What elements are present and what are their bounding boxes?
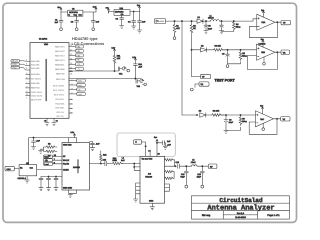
oscillator ground stub — [26, 176, 28, 180]
net label PGC — [11, 66, 20, 69]
wire clk input to oscillator — [14, 168, 19, 170]
ground under C9 — [224, 130, 228, 133]
ground IC4 left bus — [134, 196, 138, 202]
net label CLK dds — [44, 159, 53, 162]
svg-text:Vin Gnd Vdd: Vin Gnd Vdd — [142, 158, 153, 161]
svg-text:MCLR-VPP: MCLR-VPP — [31, 98, 42, 101]
net label VZ — [281, 117, 290, 121]
transistor Q1 — [118, 67, 126, 71]
resistor R11 — [113, 55, 116, 64]
diode D3 — [200, 113, 212, 117]
wire U2B output — [275, 51, 281, 53]
svg-text:Out: Out — [30, 166, 34, 169]
svg-text:RA5-AN5: RA5-AN5 — [31, 82, 40, 85]
power stub 5v+ U2C — [261, 107, 263, 114]
net label DB7 — [75, 58, 83, 61]
U1 bottom pin Vss — [46, 118, 48, 123]
svg-text:GND: GND — [149, 200, 154, 203]
svg-text:R6 10K: R6 10K — [213, 109, 220, 112]
terminal circle under C20 — [201, 185, 204, 188]
wire U9 output to 3.3v — [83, 11, 96, 13]
svg-text:RB6-PGC: RB6-PGC — [56, 72, 65, 75]
svg-text:RC2-SSP1: RC2-SSP1 — [54, 93, 65, 96]
rail down to oscillator — [28, 138, 30, 165]
svg-text:FQ-UD: FQ-UD — [63, 162, 70, 165]
svg-text:RB1-SVTC: RB1-SVTC — [55, 50, 65, 53]
svg-text:RC7-T5: RC7-T5 — [57, 115, 65, 118]
wire oscillator out to U4 — [37, 168, 62, 170]
resistor R5 1Meg — [239, 50, 242, 61]
svg-text:Cin: Cin — [121, 13, 124, 16]
U1 bottom pin AVss — [53, 118, 55, 123]
wire row2 to op-amp — [222, 49, 256, 51]
resistor R6 — [212, 114, 224, 117]
resistor R7 — [239, 115, 242, 125]
ground under Vss — [45, 123, 49, 126]
power arrow 9v at U10 input — [107, 8, 109, 13]
long wire U1 pin28 to Q1 — [69, 70, 118, 72]
terminal circle under U2C — [262, 123, 264, 127]
svg-text:+5: +5 — [56, 119, 58, 122]
ground at R8 R9 — [39, 149, 43, 153]
svg-text:3.3v: 3.3v — [112, 46, 116, 49]
IC4 pin stub crystal in — [149, 152, 151, 156]
svg-text:MCP1700: MCP1700 — [69, 11, 77, 14]
svg-text:U1 dsPIC: U1 dsPIC — [39, 37, 48, 40]
wire to op-amp U2A input — [222, 19, 257, 21]
svg-text:VDD VDD: VDD VDD — [63, 144, 72, 147]
svg-text:D7: D7 — [63, 155, 65, 158]
wire MCLR to pin 1 — [20, 60, 31, 62]
capacitor C4A mid — [132, 12, 136, 27]
svg-text:U2C: U2C — [260, 118, 264, 121]
svg-text:7: 7 — [54, 158, 55, 161]
op-amp U2A — [257, 14, 275, 30]
power arrow 3.3v at C10 — [134, 58, 136, 64]
capacitor C4B at U10 out — [138, 12, 142, 31]
svg-text:C5: C5 — [208, 25, 210, 28]
wire TP2 to terminal — [195, 84, 199, 87]
svg-text:C1: C1 — [55, 18, 57, 21]
power stub 5v+ U2B — [262, 40, 264, 47]
diode D2 — [201, 48, 214, 52]
wire U4 out — [90, 163, 104, 165]
wire R2 down to row2 and test port — [191, 35, 193, 77]
title block row line 2 — [192, 210, 290, 212]
junction at R7 — [240, 114, 241, 115]
capacitor C14 — [54, 177, 58, 188]
svg-text:C20: C20 — [197, 173, 200, 176]
junction at R1 — [174, 20, 175, 21]
svg-text:En: En — [20, 166, 22, 169]
net label LOAD — [77, 92, 86, 95]
title block outer box — [192, 196, 290, 219]
svg-text:VDD: VDD — [44, 43, 49, 46]
svg-text:C19: C19 — [181, 173, 184, 176]
svg-text:25: 25 — [54, 154, 56, 157]
ground under C5 — [204, 31, 208, 34]
capacitor C1 — [59, 12, 63, 28]
svg-text:1Meg: 1Meg — [236, 25, 241, 28]
resistor R15 — [165, 171, 175, 173]
svg-text:+5: +5 — [44, 119, 46, 122]
net label DB4 — [75, 45, 83, 48]
svg-text:RC1-T1CK1: RC1-T1CK1 — [53, 89, 65, 92]
svg-text:D3: D3 — [199, 109, 201, 112]
diode D1 — [197, 19, 206, 23]
feedback wire U2A — [250, 22, 278, 38]
crystal oscillator U5 — [19, 165, 37, 176]
junction at C6 — [221, 20, 222, 21]
ground under C4A — [132, 26, 136, 29]
svg-text:RA3-AN3: RA3-AN3 — [31, 73, 40, 76]
svg-text:1Meg: 1Meg — [242, 55, 247, 58]
IC4 lower right stubs — [165, 184, 170, 191]
terminal circle under U2B — [263, 57, 265, 63]
U4 bottom gnd stubs — [69, 190, 77, 193]
IC4 bottom pin stub — [151, 203, 153, 207]
wire caps to U4 — [41, 176, 62, 178]
resistor R12 — [100, 151, 102, 164]
wire to RF out — [201, 165, 208, 167]
svg-text:OSC1-CLK1: OSC1-CLK1 — [31, 91, 43, 94]
power arrow 5v+ at reg U9 input — [60, 8, 62, 12]
feedback wire U2B — [248, 52, 278, 69]
ground under C17 — [163, 146, 167, 149]
svg-text:3.3v: 3.3v — [71, 131, 75, 134]
svg-text:16: 16 — [158, 153, 160, 156]
svg-text:AD9850: AD9850 — [73, 166, 80, 169]
svg-text:PGD: PGD — [12, 63, 17, 66]
wire U2A output — [275, 21, 281, 23]
svg-text:R4 10K: R4 10K — [215, 44, 222, 47]
resistor R4 — [214, 49, 227, 52]
junction at C8 — [227, 49, 228, 50]
U4 part number — [77, 160, 79, 173]
svg-text:RA0-AN0: RA0-AN0 — [31, 60, 40, 63]
IC4 body — [140, 156, 165, 203]
wire R8 R9 left join — [41, 147, 46, 151]
svg-text:R8: R8 — [48, 143, 50, 146]
svg-text:L5: L5 — [192, 158, 194, 161]
svg-text:C2: C2 — [71, 21, 73, 24]
junction at C9 — [225, 114, 226, 115]
svg-text:74AC86: 74AC86 — [145, 176, 152, 179]
inductor L1 — [206, 20, 222, 21]
IC4 left pins lower — [136, 183, 140, 196]
svg-text:Out: Out — [79, 14, 83, 17]
svg-text:C16: C16 — [103, 158, 106, 161]
power arrow 3.3v backlight — [113, 49, 115, 55]
svg-text:Load: Load — [44, 163, 48, 166]
net label E — [75, 67, 83, 70]
svg-text:LCD Connections: LCD Connections — [72, 41, 105, 46]
ground under C6 — [219, 31, 223, 34]
terminal circle under C2 — [75, 28, 78, 31]
ground under C12 — [39, 188, 43, 191]
title block cell divider right — [257, 211, 259, 220]
capacitor C8 10uF — [226, 50, 241, 64]
IC U1 body — [30, 43, 69, 119]
capacitor C15 at U4 out — [90, 142, 95, 148]
pin 27 stub — [69, 71, 73, 73]
svg-text:U10: U10 — [120, 7, 123, 10]
shunt capacitor C19 — [184, 166, 188, 185]
net label RS — [75, 63, 83, 66]
svg-text:.78uH: .78uH — [191, 161, 197, 164]
svg-text:CLKIN: CLKIN — [63, 169, 69, 172]
svg-text:OSC: OSC — [7, 168, 12, 171]
svg-text:RC3-SCL: RC3-SCL — [56, 98, 65, 101]
series capacitor C18 — [178, 164, 183, 168]
svg-text:14: 14 — [148, 149, 150, 152]
capacitor C3 at U10 Cin — [120, 15, 124, 25]
ground under IC4 — [150, 207, 154, 210]
DDS module U4 AD9850 — [62, 143, 90, 191]
regulator U10 MCP1802 — [114, 10, 130, 16]
net label TP1 — [201, 74, 211, 78]
net label VF1 — [281, 20, 291, 24]
terminal circle under R1 — [174, 35, 176, 37]
capacitor C10 — [133, 64, 137, 79]
resistor R13 — [108, 162, 122, 164]
svg-text:+9v: +9v — [106, 6, 109, 9]
power arrow 3.3v DDS rail — [73, 134, 75, 138]
svg-text:In: In — [68, 14, 70, 17]
ground under C14 — [54, 188, 58, 191]
resistor R9 — [46, 150, 57, 152]
capacitor C5 10uF — [204, 21, 208, 31]
svg-text:OSC2-CLK0: OSC2-CLK0 — [31, 95, 43, 98]
svg-text:CircuitSalad: CircuitSalad — [219, 197, 263, 204]
terminal circle at Q1 — [125, 69, 128, 71]
net label PGD — [11, 63, 20, 66]
power label 5v+ at U10 output — [138, 6, 140, 12]
ground under C11 — [31, 147, 35, 150]
long vertical wire to detector row 3 — [182, 21, 197, 115]
resistor R8 — [46, 146, 57, 148]
IC U1 part number vertical — [45, 60, 47, 101]
terminal circle under C19 — [185, 185, 188, 188]
junction at main vertical — [181, 20, 182, 21]
svg-text:VDD: VDD — [78, 79, 83, 82]
terminal circle under C2B — [92, 28, 95, 31]
IC4 left pins upper — [134, 164, 140, 171]
net label TP2 — [199, 82, 209, 86]
junction at R2 — [191, 20, 192, 21]
svg-text:RB7-PGA: RB7-PGA — [56, 78, 65, 81]
net label XIN — [134, 140, 142, 144]
ground under C13 — [46, 188, 50, 191]
svg-text:1Meg: 1Meg — [242, 120, 247, 123]
svg-text:R12: R12 — [103, 154, 106, 157]
svg-text:RB0-SVT0: RB0-SVT0 — [55, 46, 65, 49]
ground under AVss — [52, 123, 56, 126]
junction at C20 — [202, 166, 203, 167]
net label DB5 — [75, 49, 83, 52]
resistor R14 — [165, 159, 175, 167]
wire U10 input — [109, 12, 115, 14]
title block row line 1 — [192, 202, 290, 204]
capacitor C6 — [220, 21, 224, 31]
svg-text:GND GND: GND GND — [63, 187, 73, 190]
group outline box — [117, 133, 175, 156]
resistor R16 — [165, 172, 175, 180]
svg-text:LM6142: LM6142 — [259, 43, 266, 46]
capacitor C2B — [91, 12, 95, 28]
net label RF out — [208, 164, 217, 168]
svg-text:C9: C9 — [229, 119, 231, 122]
net label VR — [281, 50, 290, 54]
resistor R1 — [173, 21, 176, 35]
svg-text:RA1-AN1: RA1-AN1 — [31, 63, 40, 66]
svg-text:C3: C3 — [116, 17, 118, 20]
wire U10 output to 5v+ — [130, 11, 140, 13]
wire row2 from R2 node — [192, 49, 201, 51]
svg-text:RT5-SD0: RT5-SD0 — [56, 107, 65, 110]
wire U9 input — [61, 11, 68, 13]
svg-text:IC4: IC4 — [148, 172, 151, 175]
svg-text:Load: Load — [77, 93, 81, 96]
svg-text:MCLR: MCLR — [12, 60, 18, 63]
svg-text:D1: D1 — [198, 16, 200, 19]
wire filter to IC4 — [122, 163, 135, 165]
inductor L5 — [182, 165, 201, 166]
net label MCLR — [11, 60, 20, 63]
net label DATA dds — [44, 155, 53, 158]
op-amp U2B — [257, 44, 276, 60]
svg-text:RB2-SVT2: RB2-SVT2 — [55, 55, 65, 58]
svg-text:U5: U5 — [26, 162, 28, 165]
svg-text:3.3v: 3.3v — [132, 56, 136, 59]
connector J1 battery input — [155, 19, 166, 24]
svg-text:Clk: Clk — [45, 159, 48, 162]
shunt capacitor C20 — [200, 166, 204, 185]
svg-text:RC4-SDA: RC4-SDA — [56, 102, 65, 105]
svg-text:RB4-NK11: RB4-NK11 — [55, 63, 65, 66]
wires dds net labels to U4 — [53, 157, 63, 164]
terminal circle test port — [190, 88, 193, 91]
terminal circle under C1 — [60, 28, 63, 31]
capacitor C17 — [157, 141, 164, 145]
junction row3 — [196, 114, 197, 115]
net label LOAD dds — [44, 162, 53, 165]
U4 Vdd stubs — [69, 138, 77, 143]
title block cell divider left — [222, 211, 224, 220]
title block rev cell split — [223, 214, 257, 216]
power label 3.3v at U9 output — [95, 7, 97, 12]
svg-text:Rvr-T0CK1: Rvr-T0CK1 — [31, 78, 42, 81]
svg-text:TEST PORT: TEST PORT — [215, 79, 236, 83]
ground under C3 — [120, 26, 124, 29]
svg-text:RB5-PWM: RB5-PWM — [55, 68, 65, 71]
capacitor C16 series — [103, 161, 108, 165]
svg-text:CMOS1.3: CMOS1.3 — [18, 177, 26, 180]
feedback wire U2C — [249, 119, 277, 135]
capacitor C9 10uF — [224, 115, 241, 130]
svg-text:RC1-T4: RC1-T4 — [57, 111, 65, 114]
svg-text:RB0-RX0: RB0-RX0 — [31, 87, 40, 90]
net label DATA — [77, 84, 86, 87]
resistor R2 — [190, 21, 193, 34]
capacitor C13 — [47, 177, 51, 188]
lower right pin stubs — [69, 100, 73, 114]
net label CLK input — [5, 166, 14, 171]
wire XIN to IC4 — [142, 142, 146, 156]
svg-text:RB3-SVTV: RB3-SVTV — [55, 59, 65, 62]
svg-text:100uH: 100uH — [208, 17, 214, 20]
regulator U9 MCP1700 — [68, 10, 83, 16]
ground under C4B — [137, 30, 141, 33]
wire to test port 1 — [192, 76, 201, 78]
wire R11 to gate node — [114, 63, 116, 71]
svg-text:11-10-2013: 11-10-2013 — [235, 216, 246, 219]
svg-text:W-CLK: W-CLK — [63, 159, 70, 162]
svg-text:RM eng: RM eng — [202, 214, 211, 217]
net label VDD — [77, 79, 86, 82]
resistor R3 1Meg — [233, 21, 236, 30]
svg-text:L4: L4 — [122, 157, 124, 160]
op-amp U2C — [256, 111, 274, 127]
capacitor C12 — [39, 177, 43, 188]
svg-text:C18: C18 — [176, 161, 179, 164]
svg-text:D2: D2 — [201, 44, 203, 47]
svg-text:100R: 100R — [112, 159, 117, 162]
power stub 5v+ U2A — [262, 11, 264, 17]
terminal circle at Q2 — [142, 83, 145, 85]
terminal circle under C8 — [226, 65, 229, 68]
wire U2C output — [274, 118, 281, 120]
svg-text:PGC: PGC — [12, 67, 17, 70]
net label CLK — [77, 88, 86, 91]
wires U1 right pins to LCD labels — [69, 47, 75, 69]
ground under oscillator — [25, 180, 29, 183]
junction at R5 — [240, 49, 241, 50]
wire row3 to op-amp — [221, 114, 256, 116]
svg-text:C4: C4 — [128, 20, 130, 23]
svg-text:3.3v: 3.3v — [93, 5, 97, 8]
ground under C15 — [90, 148, 94, 151]
svg-text:RC0-T1CK0: RC0-T1CK0 — [53, 84, 65, 87]
left pin stubs U1 — [26, 74, 31, 95]
IC4 right pin wire to output — [165, 165, 177, 167]
junction at C5 — [205, 20, 206, 21]
svg-text:RA2-AN2: RA2-AN2 — [31, 67, 40, 70]
svg-text:Rev 1.0: Rev 1.0 — [237, 212, 245, 215]
wire R3 bottom to C6 node — [222, 30, 234, 32]
svg-text:Antenna Analyzer: Antenna Analyzer — [207, 204, 274, 213]
capacitor C2 at Cap pin — [75, 16, 79, 28]
wire PGC to pin 3 — [20, 68, 31, 70]
svg-text:Clk: Clk — [78, 88, 81, 91]
svg-text:Page 1 of 1: Page 1 of 1 — [267, 214, 280, 217]
wire J1 to D1 — [166, 20, 198, 22]
svg-text:8: 8 — [54, 161, 55, 164]
long wire U1 to Q2 — [69, 78, 142, 80]
power arrow 5v+ mixer — [156, 139, 158, 156]
wires U1 lower right pins to net labels — [69, 81, 77, 94]
transistor Q2 — [136, 79, 144, 83]
wire PGD to pin 2 — [20, 64, 31, 65]
junction at C19 — [186, 166, 187, 167]
junction at R3 — [233, 20, 234, 21]
net label DB6 — [75, 54, 83, 57]
svg-text:C8: C8 — [222, 52, 224, 55]
ground under U4 — [68, 193, 72, 197]
bypass capacitor C11 — [32, 138, 36, 147]
3.3v rail wire — [29, 137, 77, 139]
svg-text:U9: U9 — [72, 8, 74, 11]
